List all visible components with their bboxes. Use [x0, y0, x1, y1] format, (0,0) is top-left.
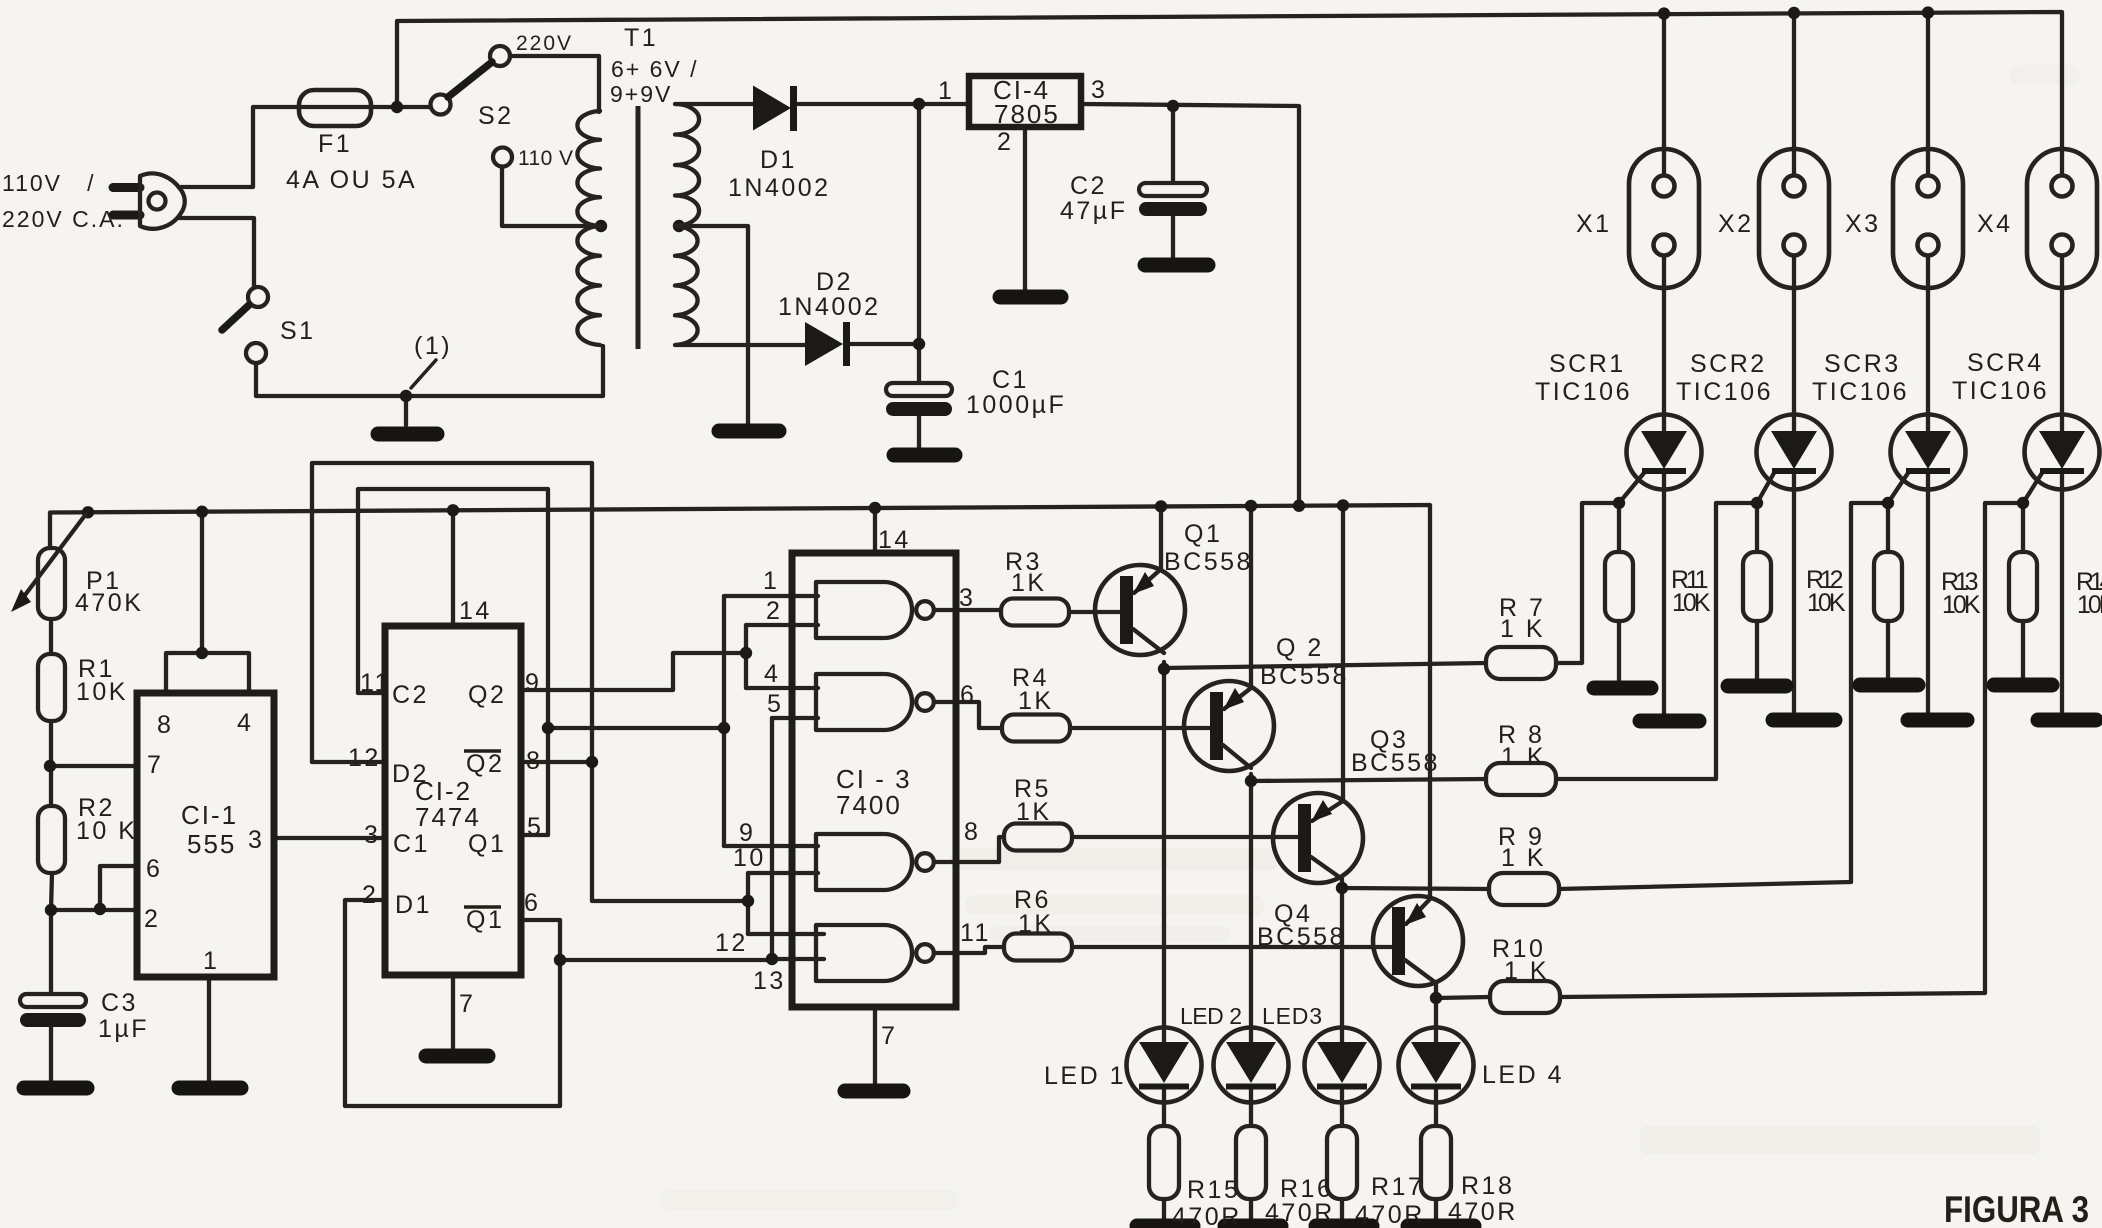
switch S2 — [431, 95, 451, 115]
node secondary center tap — [673, 220, 685, 232]
ground R14 — [1994, 678, 2052, 693]
node fuse-S2 junction — [391, 101, 403, 113]
svg-text:6: 6 — [146, 855, 162, 883]
node rail CI-3 pin14 — [869, 502, 881, 514]
wire CI-3 pin9 wire — [724, 844, 818, 848]
svg-text:2: 2 — [766, 597, 782, 625]
wire CI-2 D2 pin12 stub — [312, 760, 385, 764]
transformer T1 secondary winding — [675, 104, 699, 345]
svg-text:9: 9 — [739, 819, 755, 847]
outlet X3 — [1893, 149, 1963, 288]
wire Q4 base wire — [1073, 945, 1392, 949]
node Q2bar node — [586, 756, 598, 768]
wire R9 left wire — [1342, 888, 1489, 889]
svg-text:D2: D2 — [392, 760, 429, 788]
ground R16 — [1225, 1219, 1281, 1228]
wire R15 to ground — [1162, 1199, 1166, 1223]
NAND gate CI-3d — [816, 925, 912, 981]
node bus X1 tap — [1658, 7, 1670, 19]
wire gate pins 5-13 vertical — [770, 718, 774, 960]
fuse F1 — [299, 90, 371, 126]
transistor Q3 BC558 — [1273, 793, 1363, 883]
potentiometer P1 — [38, 548, 65, 619]
wire 555 pin1 ground stub — [207, 977, 211, 1083]
wire R12 top stub — [1755, 503, 1759, 553]
wire +5V rail — [50, 505, 1430, 899]
svg-text:LED 4: LED 4 — [1482, 1061, 1564, 1089]
svg-text:8: 8 — [964, 818, 980, 846]
wire R17 to ground — [1340, 1199, 1344, 1223]
svg-text:BC558: BC558 — [1351, 749, 1440, 777]
wire R8 right wire to SCR2 gate — [1554, 503, 1757, 779]
wire top AC bus — [397, 12, 2062, 176]
wire R13 top stub — [1886, 503, 1890, 553]
svg-text:470K: 470K — [75, 589, 143, 617]
wire gate4 output wire — [934, 947, 1004, 953]
svg-text:10K: 10K — [1807, 589, 1848, 617]
wire R13 bottom stub — [1886, 621, 1890, 683]
node bus X2 tap — [1788, 7, 1800, 19]
svg-text:X2: X2 — [1718, 210, 1754, 238]
resistor R8 — [1486, 763, 1556, 795]
wire gate pins 2-4 vertical — [744, 625, 748, 688]
node 555 pin7 node — [44, 760, 56, 772]
svg-text:220V C.A.: 220V C.A. — [2, 206, 125, 232]
svg-text:470R: 470R — [1172, 1203, 1242, 1228]
wire P1-R1 link — [49, 619, 53, 654]
wire LED2 cathode to R16 — [1249, 1087, 1253, 1126]
ground 555 pin 1 — [179, 1081, 241, 1096]
svg-text:LED3: LED3 — [1262, 1003, 1324, 1029]
svg-text:C2: C2 — [1070, 172, 1107, 200]
svg-text:10K: 10K — [1942, 591, 1983, 619]
diode D1 — [753, 86, 791, 131]
wire Q1bar feedback loop to D1 — [345, 900, 560, 1106]
wire staple D2 to Q2bar — [312, 463, 592, 762]
wire CI-2 pin14 riser — [451, 510, 455, 626]
svg-text:110 V: 110 V — [518, 147, 575, 170]
svg-text:SCR3: SCR3 — [1824, 350, 1901, 378]
svg-text:Q1: Q1 — [466, 906, 504, 934]
svg-text:BC558: BC558 — [1257, 923, 1346, 951]
node SCR2 gate node — [1751, 497, 1763, 509]
NAND gate CI-3b — [816, 674, 912, 730]
wire D1 cathode wire to node 1 — [798, 102, 969, 106]
switch S1 — [248, 287, 268, 307]
svg-text:Q1: Q1 — [1184, 520, 1222, 548]
resistor R1 — [38, 654, 65, 721]
wire 110V tap wire to primary center — [502, 167, 597, 226]
wire pin7 node to R2 — [49, 766, 53, 806]
node SCR3 gate node — [1882, 497, 1894, 509]
diode D2 — [805, 322, 843, 366]
transistor Q4 BC558 — [1373, 896, 1463, 986]
svg-text:X3: X3 — [1845, 210, 1881, 238]
svg-text:6: 6 — [524, 889, 540, 917]
svg-text:9+9V: 9+9V — [610, 81, 672, 107]
node Q1 collector node — [1158, 663, 1170, 675]
wire bus drop to X2 — [1792, 13, 1796, 176]
wire C3 bottom stub — [49, 1026, 53, 1083]
SCR3 TIC106 — [1891, 415, 1966, 490]
svg-text:R18: R18 — [1461, 1172, 1514, 1200]
wire Q3 emitter riser — [1341, 505, 1345, 801]
LED 4 — [1399, 1028, 1474, 1103]
wire CI-3 pin12 wire — [748, 932, 824, 936]
svg-text:7474: 7474 — [415, 802, 481, 832]
svg-text:1: 1 — [938, 77, 954, 105]
ground R15 — [1137, 1219, 1193, 1228]
wire R12 bottom stub — [1755, 621, 1759, 683]
ground R18 — [1408, 1219, 1474, 1228]
NAND gate CI-3c — [816, 834, 912, 890]
callout (1) pointer — [411, 360, 436, 388]
svg-text:220V: 220V — [516, 32, 573, 55]
svg-text:TIC106: TIC106 — [1676, 378, 1773, 406]
SCR2 TIC106 — [1757, 415, 1832, 490]
IC CI-3 7400 box — [792, 553, 956, 1007]
ground R17 — [1316, 1219, 1372, 1228]
wire LED3 cathode to R17 — [1340, 1087, 1344, 1126]
svg-text:1µF: 1µF — [98, 1015, 149, 1043]
resistor R9 — [1489, 873, 1559, 905]
svg-text:C1: C1 — [992, 366, 1029, 394]
capacitor C1 — [886, 383, 952, 396]
svg-text:TIC106: TIC106 — [1535, 378, 1632, 406]
wire CI-2 C2 pin11 stub — [358, 691, 385, 695]
wire gate2 output wire — [934, 702, 1002, 728]
wire R16 to ground — [1249, 1199, 1253, 1223]
wire plug line wire to fuse — [181, 107, 430, 187]
wire C1 top stub — [917, 344, 921, 384]
resistor R12 — [1743, 552, 1771, 621]
node Q2 collector node — [1245, 775, 1257, 787]
svg-text:12: 12 — [715, 929, 748, 957]
wire SCR2 gate lead — [1757, 473, 1774, 503]
wire CI-3 pin5 wire — [772, 716, 818, 720]
svg-text:T1: T1 — [624, 24, 658, 52]
wire node1-node2 vertical — [917, 104, 921, 344]
svg-text:14: 14 — [459, 597, 492, 625]
transformer T1 core — [636, 106, 641, 349]
svg-text:110V /: 110V / — [2, 170, 96, 196]
svg-text:1N4002: 1N4002 — [778, 293, 881, 321]
wire LED4 cathode to R18 — [1434, 1087, 1438, 1126]
wire mains ground stub — [404, 396, 408, 425]
wire C3 top stub — [49, 910, 53, 994]
resistor R16 — [1236, 1126, 1266, 1199]
wire secondary bottom wire to D2 — [676, 343, 805, 347]
wire R1 to pin7 node — [49, 721, 53, 766]
wire R10 right wire to SCR4 gate — [1560, 503, 2023, 997]
node SCR4 gate node — [2017, 497, 2029, 509]
node Q4 collector node — [1430, 992, 1442, 1004]
wire CI-3 pin7 ground stub — [873, 1007, 877, 1085]
ground C3 — [24, 1081, 87, 1096]
node SCR1 gate node — [1613, 497, 1625, 509]
wire CI-3 pin13 wire — [772, 957, 824, 961]
svg-text:1: 1 — [203, 947, 219, 975]
SCR4 TIC106 — [2025, 415, 2100, 490]
svg-text:10: 10 — [733, 844, 766, 872]
NAND gate CI-3a — [816, 582, 912, 638]
wire D2 cathode wire to node 2 — [851, 342, 919, 346]
wire gate3 output wire — [934, 837, 1004, 862]
svg-text:7805: 7805 — [994, 99, 1060, 129]
svg-text:4A OU 5A: 4A OU 5A — [286, 166, 417, 194]
svg-text:S1: S1 — [280, 317, 316, 345]
svg-text:1000µF: 1000µF — [966, 391, 1066, 419]
resistor R18 — [1421, 1126, 1451, 1199]
svg-text:X1: X1 — [1576, 210, 1612, 238]
svg-text:1 K: 1 K — [1504, 957, 1549, 985]
wire 555 supply staple pins 8-4 — [166, 653, 249, 695]
svg-text:10K: 10K — [76, 678, 128, 706]
svg-text:11: 11 — [960, 919, 991, 947]
wire R2 to pin2 node — [51, 873, 52, 910]
svg-text:10K: 10K — [1672, 589, 1713, 617]
wire R11 top stub — [1617, 503, 1621, 553]
svg-text:10K: 10K — [2077, 591, 2102, 619]
svg-text:1 K: 1 K — [1501, 844, 1546, 872]
scan bleed smudges — [950, 848, 1280, 870]
svg-text:F1: F1 — [318, 130, 352, 158]
wire SCR3 gate lead — [1888, 473, 1908, 503]
wire Q2 emitter riser — [1249, 505, 1253, 688]
capacitor C2 — [1139, 183, 1207, 196]
svg-text:13: 13 — [753, 967, 786, 995]
wire LED1 cathode to R15 — [1162, 1087, 1166, 1126]
svg-text:D1: D1 — [760, 146, 797, 174]
resistor R7 — [1486, 647, 1556, 679]
ground R12 — [1728, 679, 1786, 694]
ground CI-4 pin 2 — [1000, 290, 1061, 305]
svg-text:5: 5 — [527, 813, 543, 841]
svg-text:7: 7 — [147, 751, 163, 779]
svg-text:D1: D1 — [395, 891, 432, 919]
wire Q2 net to gates 1-2 — [521, 653, 746, 690]
wire S1 bottom return wire — [256, 346, 603, 396]
wire R11 bottom stub — [1617, 621, 1621, 683]
resistor R5 — [1004, 824, 1072, 851]
wire R14 bottom stub — [2021, 621, 2025, 683]
svg-text:11: 11 — [360, 669, 391, 697]
wire 555 staple riser to rail — [200, 512, 204, 653]
resistor R11 — [1605, 552, 1633, 621]
ground mains (1) — [378, 427, 437, 442]
node rail 7805 feed — [1293, 500, 1305, 512]
svg-text:FIGURA 3: FIGURA 3 — [1944, 1189, 2089, 1228]
wire CI-2 Q1 pin5 stub — [521, 833, 548, 837]
wire secondary top wire to D1 — [676, 102, 753, 106]
transistor Q1 BC558 — [1095, 565, 1185, 655]
wire 555 pin2 wire — [50, 908, 137, 912]
wire Q1 collector column to LED1 — [1162, 662, 1166, 1044]
svg-text:10 K: 10 K — [76, 817, 137, 845]
svg-text:2: 2 — [362, 881, 378, 909]
transformer T1 primary winding — [577, 111, 600, 345]
IC CI-2 7474 box — [385, 626, 521, 975]
wire fuse junction riser to bus — [395, 22, 399, 107]
wire 555 pin7 wire — [50, 764, 137, 768]
svg-text:Q1: Q1 — [468, 830, 506, 858]
wire Q2bar net drop — [592, 762, 748, 901]
ground CI-3 pin 7 — [845, 1084, 903, 1099]
svg-text:1K: 1K — [1018, 910, 1054, 938]
svg-text:2: 2 — [144, 905, 160, 933]
svg-text:C3: C3 — [101, 989, 138, 1017]
svg-text:BC558: BC558 — [1260, 662, 1349, 690]
wire CI-4 pin2 ground stub — [1023, 127, 1027, 291]
svg-text:Q 2: Q 2 — [1276, 634, 1324, 662]
LED 1 — [1127, 1028, 1202, 1103]
node 555 pin2 node — [45, 904, 57, 916]
svg-text:6+ 6V /: 6+ 6V / — [611, 56, 699, 82]
wire R9 right wire to SCR3 gate — [1558, 503, 1888, 889]
node gates 5-13 node — [766, 953, 778, 965]
outlet X4 — [2027, 149, 2097, 288]
wire R7 left wire — [1164, 663, 1486, 668]
wire X4 to SCR4 anode — [2060, 255, 2064, 432]
svg-text:1 K: 1 K — [1500, 615, 1545, 643]
IC CI-1 555 box — [137, 693, 274, 977]
node rail CI-2 pin14 — [447, 504, 459, 516]
node rail Q3 emitter — [1337, 499, 1349, 511]
node rail Q2 emitter — [1245, 500, 1257, 512]
svg-text:14: 14 — [878, 526, 911, 554]
svg-text:TIC106: TIC106 — [1812, 378, 1909, 406]
regulator CI-4 7805 — [969, 76, 1081, 127]
svg-text:7: 7 — [881, 1022, 897, 1050]
svg-text:LED 1: LED 1 — [1044, 1062, 1126, 1090]
outlet X1 — [1629, 149, 1699, 288]
svg-text:Q2: Q2 — [466, 750, 504, 778]
svg-text:4: 4 — [764, 660, 780, 688]
wire SCR4 cathode to ground — [2060, 470, 2064, 716]
svg-text:4: 4 — [237, 709, 253, 737]
node gates 10-12 node — [742, 895, 754, 907]
wire R14 top stub — [2021, 503, 2025, 553]
LED 2 — [1214, 1028, 1289, 1103]
svg-text:2: 2 — [997, 128, 1013, 156]
node Q3 collector node — [1336, 882, 1348, 894]
ground R13 — [1860, 678, 1918, 693]
wire bus drop to X3 — [1926, 13, 1930, 176]
node bus X3 tap — [1922, 6, 1934, 18]
capacitor C3 — [20, 994, 86, 1007]
resistor R10 — [1490, 981, 1560, 1013]
ground SCR3 cathode — [1908, 713, 1967, 728]
node 555 pin6 node — [94, 903, 106, 915]
svg-text:1K: 1K — [1011, 569, 1047, 597]
wire CI-2 pin7 ground stub — [451, 975, 455, 1049]
node gates 1-9 node — [718, 722, 730, 734]
LED 3 — [1305, 1028, 1380, 1103]
svg-text:R15: R15 — [1187, 1176, 1240, 1204]
wire R7 right wire to SCR1 gate — [1556, 503, 1619, 663]
svg-text:470R: 470R — [1265, 1199, 1335, 1227]
wire plug neutral wire to S1 — [179, 218, 254, 288]
wire Q2 collector column to LED2 — [1249, 774, 1253, 1044]
svg-text:47µF: 47µF — [1060, 197, 1127, 225]
svg-text:9: 9 — [525, 669, 541, 697]
node node 2 D2-C1 — [913, 338, 925, 350]
svg-text:BC558: BC558 — [1164, 548, 1253, 576]
svg-text:1K: 1K — [1016, 798, 1052, 826]
ground C1 — [894, 448, 955, 463]
svg-text:470R: 470R — [1448, 1198, 1518, 1226]
ground SCR2 cathode — [1773, 713, 1835, 728]
svg-text:8: 8 — [157, 711, 173, 739]
wire 555 pin6 jog wire — [100, 866, 137, 910]
svg-text:X4: X4 — [1977, 210, 2013, 238]
wire gate pins 1-9 vertical — [722, 596, 726, 846]
wire Q1 net branch — [548, 726, 724, 730]
svg-text:SCR4: SCR4 — [1967, 349, 2044, 377]
svg-text:1K: 1K — [1018, 687, 1054, 715]
SCR1 TIC106 — [1627, 415, 1702, 490]
svg-text:R17: R17 — [1371, 1173, 1424, 1201]
svg-text:12: 12 — [348, 744, 381, 772]
wire S2 220V tap wire to primary top — [510, 56, 599, 112]
wire SCR1 cathode to ground — [1662, 470, 1666, 716]
svg-text:SCR2: SCR2 — [1690, 350, 1767, 378]
node primary center tap — [595, 220, 607, 232]
ground SCR4 cathode — [2038, 713, 2096, 728]
svg-text:CI-1: CI-1 — [181, 800, 238, 830]
node Q1 net node — [542, 722, 554, 734]
svg-text:3: 3 — [959, 584, 975, 612]
ground C2 — [1145, 258, 1208, 273]
mains plug — [113, 183, 140, 192]
resistor R13 — [1874, 552, 1902, 621]
svg-text:3: 3 — [248, 826, 264, 854]
node Q1bar branch node — [554, 954, 566, 966]
wire Q1 emitter riser — [1159, 505, 1163, 569]
wire CI-3 pin4 wire — [746, 686, 818, 690]
svg-text:555: 555 — [187, 829, 236, 859]
node gates 2-4 node — [740, 647, 752, 659]
resistor R15 — [1149, 1126, 1179, 1199]
resistor R3 — [1001, 599, 1069, 626]
svg-text:1: 1 — [763, 567, 779, 595]
node C2 node — [1167, 100, 1179, 112]
wire secondary center tap to ground — [679, 226, 748, 424]
wire CI-4 output wire to +5V rail — [1081, 104, 1299, 505]
wire CI-3 pin1 wire — [724, 594, 818, 598]
resistor R6 — [1004, 934, 1072, 961]
wire Q2 base wire — [1071, 726, 1211, 730]
svg-text:S2: S2 — [478, 102, 514, 130]
wire X3 to SCR3 anode — [1926, 255, 1930, 432]
wire C2 bottom stub — [1171, 212, 1175, 260]
wire SCR3 cathode to ground — [1926, 470, 1930, 716]
wire SCR4 gate lead — [2023, 473, 2042, 503]
wire Q4 collector column to LED4 — [1434, 985, 1438, 1044]
node node 1 rectifier output — [913, 98, 925, 110]
wire Q1bar branch to gates — [560, 958, 772, 962]
resistor R17 — [1327, 1126, 1357, 1199]
resistor R4 — [1002, 715, 1070, 742]
resistor R2 — [38, 806, 65, 873]
node rail 555 supply — [196, 506, 208, 518]
resistor R14 — [2009, 552, 2037, 621]
outlet X2 — [1759, 149, 1829, 288]
transistor Q2 BC558 — [1184, 681, 1274, 771]
wire X2 to SCR2 anode — [1792, 255, 1796, 432]
wire C1 bottom stub — [917, 415, 921, 450]
node rail P1 wiper — [82, 506, 94, 518]
